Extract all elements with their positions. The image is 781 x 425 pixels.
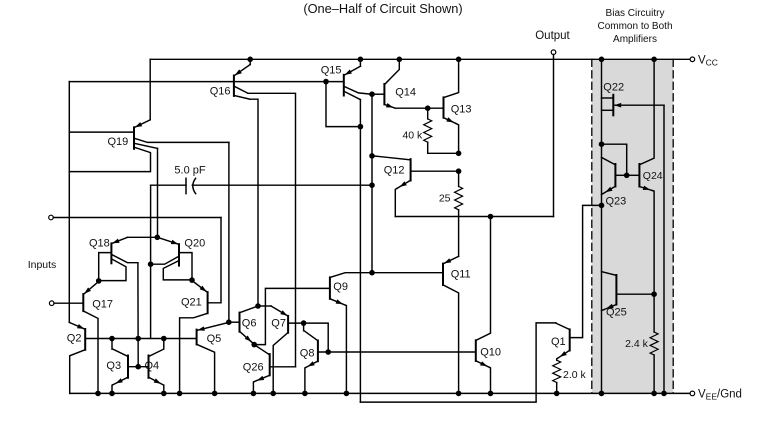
svg-text:VEE/Gnd: VEE/Gnd xyxy=(698,389,742,402)
svg-text:Q14: Q14 xyxy=(395,87,416,99)
svg-text:Q16: Q16 xyxy=(210,86,231,98)
svg-text:40 k: 40 k xyxy=(402,130,423,142)
svg-text:(One–Half of Circuit Shown): (One–Half of Circuit Shown) xyxy=(303,1,462,16)
svg-text:Q8: Q8 xyxy=(300,348,315,360)
svg-text:Q15: Q15 xyxy=(321,65,342,77)
svg-text:Q19: Q19 xyxy=(108,136,129,148)
svg-text:Q12: Q12 xyxy=(384,165,405,177)
svg-text:Q10: Q10 xyxy=(480,347,501,359)
svg-text:Q3: Q3 xyxy=(106,360,121,372)
svg-text:Common to Both: Common to Both xyxy=(597,21,672,32)
svg-text:2.4 k: 2.4 k xyxy=(625,338,649,350)
svg-text:Amplifiers: Amplifiers xyxy=(613,34,657,45)
svg-text:Q22: Q22 xyxy=(603,82,624,94)
svg-text:Q17: Q17 xyxy=(92,299,113,311)
svg-text:5.0 pF: 5.0 pF xyxy=(174,165,205,177)
svg-text:Q9: Q9 xyxy=(333,281,348,293)
svg-text:Q18: Q18 xyxy=(89,238,110,250)
svg-text:Q20: Q20 xyxy=(184,238,205,250)
svg-text:Q21: Q21 xyxy=(181,297,202,309)
svg-text:Bias Circuitry: Bias Circuitry xyxy=(606,8,665,19)
svg-text:Q5: Q5 xyxy=(207,333,222,345)
svg-text:Q24: Q24 xyxy=(643,170,663,182)
svg-text:Q2: Q2 xyxy=(67,333,82,345)
svg-text:Q1: Q1 xyxy=(551,336,566,348)
svg-text:Q25: Q25 xyxy=(606,307,627,319)
svg-text:Q7: Q7 xyxy=(271,318,286,330)
svg-text:Q11: Q11 xyxy=(451,269,471,281)
svg-text:Q6: Q6 xyxy=(242,318,257,330)
svg-text:Q13: Q13 xyxy=(451,104,472,116)
svg-text:Q26: Q26 xyxy=(243,362,264,374)
svg-text:Inputs: Inputs xyxy=(28,259,57,271)
svg-text:2.0 k: 2.0 k xyxy=(563,369,587,381)
svg-text:Output: Output xyxy=(535,30,570,42)
svg-text:Q23: Q23 xyxy=(606,196,627,208)
svg-text:Q4: Q4 xyxy=(145,360,160,372)
svg-text:25: 25 xyxy=(439,193,451,205)
